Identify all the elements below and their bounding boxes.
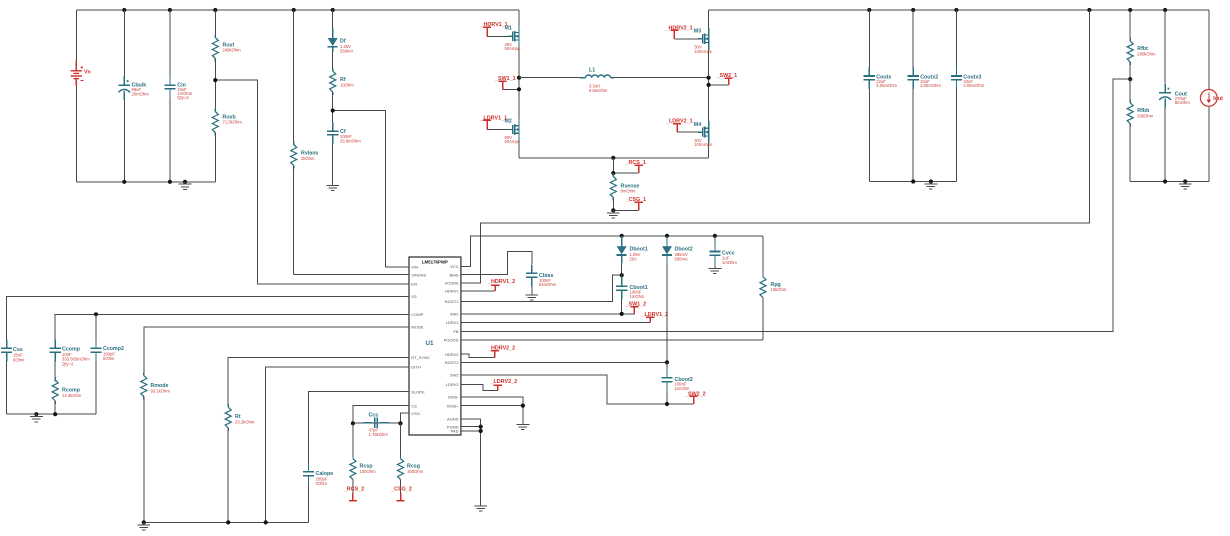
wire comp ground rail [7, 413, 96, 415]
resistor Rcomp [52, 377, 82, 414]
svg-text:VINSNS: VINSNS [411, 272, 426, 277]
svg-text:M3: M3 [694, 28, 701, 34]
svg-text:BIAS: BIAS [449, 272, 458, 277]
svg-text:10Ohm: 10Ohm [340, 82, 354, 87]
svg-text:Iout: Iout [1213, 96, 1223, 102]
wire input bottom rail [76, 181, 215, 183]
resistor Rfbt [1127, 10, 1156, 79]
svg-text:COMP: COMP [411, 312, 423, 317]
wire VINSNS [294, 274, 409, 276]
node Cin bottom [168, 180, 172, 184]
svg-text:280kOhm: 280kOhm [1137, 51, 1156, 56]
svg-text:Ccs: Ccs [369, 413, 379, 419]
wire SW1 [461, 313, 635, 315]
svg-text:SS: SS [411, 294, 417, 299]
node sense rail tap [611, 156, 615, 160]
svg-text:SLOPE: SLOPE [411, 389, 425, 394]
svg-text:_LDRV1_1: _LDRV1_1 [480, 115, 508, 121]
ground bottom rail [137, 520, 150, 530]
wire EN from uvlo divider [215, 80, 409, 284]
svg-text:1mOhm: 1mOhm [630, 294, 645, 299]
net port _SW1_1 [494, 76, 519, 89]
resistor Rpg [760, 236, 787, 340]
wire BOOT1 [461, 275, 622, 301]
svg-text:VCC: VCC [450, 264, 459, 269]
node Cboot2 bottom [665, 402, 669, 406]
net port _HDRV2_2 [461, 346, 515, 358]
wire LDRV1 [461, 321, 650, 323]
ground Cbias [525, 292, 538, 300]
capacitor Ccs [353, 413, 401, 437]
svg-text:_SW1_2: _SW1_2 [625, 302, 647, 308]
svg-text:_LDRV2_2: _LDRV2_2 [490, 379, 518, 385]
capacitor Cboot2 [661, 362, 692, 404]
net port _SW2_2 [684, 391, 706, 404]
node RCS tap [611, 171, 615, 175]
node Cvcc top [713, 234, 717, 238]
svg-text:Vn: Vn [84, 69, 91, 75]
diode Dboot2 [662, 236, 693, 363]
net port _HDRV1_1 [480, 22, 509, 36]
svg-text:1.76kOhm: 1.76kOhm [369, 432, 389, 437]
node top rail Coutx [867, 8, 871, 12]
net port _LDRV1_2 [641, 312, 669, 322]
node top rail Ruvt [213, 8, 217, 12]
net port _SW1_2 [625, 302, 647, 314]
node Dboot2 top [665, 234, 669, 238]
svg-text:23.2kOhm: 23.2kOhm [235, 420, 255, 425]
svg-text:0Ohm: 0Ohm [13, 358, 25, 363]
diode Dboot1 [617, 236, 648, 275]
svg-text:0Ohm: 0Ohm [316, 481, 328, 486]
svg-text:_CSG_2: _CSG_2 [390, 487, 412, 493]
resistor Rcsp [350, 423, 376, 492]
svg-text:20kOhm: 20kOhm [1137, 113, 1153, 118]
svg-text:71.5kOhm: 71.5kOhm [223, 120, 243, 125]
svg-text:BOOT1: BOOT1 [445, 299, 459, 304]
wire SW2 [461, 375, 694, 404]
ground Cf [326, 183, 339, 191]
resistor Ruvb [212, 80, 242, 182]
capacitor Coutx2 [908, 10, 942, 182]
svg-text:8.6mOhm: 8.6mOhm [589, 88, 608, 93]
ground comp network [30, 412, 43, 422]
node top rail Coutx3 [954, 8, 958, 12]
ground AGND [474, 503, 487, 511]
node SW2 inductor tap [707, 76, 711, 80]
svg-text:1mOhm: 1mOhm [722, 260, 737, 265]
svg-text:8mOhm: 8mOhm [621, 189, 636, 194]
ground Cvcc [709, 266, 722, 274]
resistor Rvlans [291, 10, 319, 275]
capacitor Css [1, 339, 25, 414]
node uvlo divider junction [213, 78, 217, 82]
op-amp U1 LM5176PWP [405, 257, 465, 435]
node ISNS junction [521, 404, 525, 408]
node Rcomp bottom [53, 412, 57, 416]
transistor M2 [505, 119, 520, 145]
net port _HDRV1_2 [461, 279, 515, 291]
svg-text:MODE: MODE [411, 325, 423, 330]
ground ISNS [517, 422, 530, 430]
svg-text:VIN: VIN [411, 265, 418, 270]
wire BOOT2 [461, 361, 667, 363]
svg-text:14.3kOhm: 14.3kOhm [62, 393, 82, 398]
net port _RCS_1 [613, 158, 646, 173]
svg-text:DITH: DITH [411, 365, 420, 370]
node DITH bottom [264, 520, 268, 524]
capacitor Coutx3 [951, 10, 985, 182]
node top rail Rvlans [292, 8, 296, 12]
svg-text:LM5176PWP: LM5176PWP [422, 260, 448, 265]
resistor Rcsg [398, 423, 424, 492]
node Cboot1 bottom [620, 312, 624, 316]
wire ISNS- [461, 397, 523, 406]
svg-text:_LDRV1_2: _LDRV1_2 [641, 312, 669, 318]
wire output cap rail [869, 181, 956, 183]
node SW1 stub tap [517, 87, 521, 91]
wire analog bottom rail [144, 521, 309, 523]
svg-text:Qty=3: Qty=3 [177, 95, 189, 100]
node top rail Cbulk [122, 8, 126, 12]
svg-text:100Ohm: 100Ohm [360, 469, 377, 474]
wire DITH [266, 367, 409, 522]
wire switch leg 1 [519, 10, 613, 158]
capacitor Cvcc [709, 236, 737, 266]
wire switch leg 2 [613, 10, 708, 158]
svg-text:50Amps: 50Amps [505, 139, 520, 144]
svg-text:100Amps: 100Amps [694, 49, 712, 54]
svg-text:250mA: 250mA [340, 48, 353, 53]
node CS tap [351, 421, 355, 425]
svg-text:VOSNS: VOSNS [445, 281, 459, 286]
svg-text:_SW2_2: _SW2_2 [684, 391, 706, 397]
node Dboot1 top [620, 234, 624, 238]
capacitor Cbias [526, 264, 557, 294]
capacitor Cout [1159, 10, 1190, 182]
svg-text:PGOOD: PGOOD [444, 338, 459, 343]
svg-text:ISNS-: ISNS- [448, 395, 459, 400]
svg-text:_SW1_1: _SW1_1 [494, 76, 516, 82]
svg-text:_RCS_1: _RCS_1 [625, 160, 646, 166]
node top rail Rfbt [1128, 8, 1132, 12]
node top rail Df [331, 8, 335, 12]
node CSG tap [398, 421, 402, 425]
ground output caps [925, 179, 938, 189]
transistor M3 [694, 28, 712, 54]
svg-text:25.6mOhm: 25.6mOhm [340, 139, 361, 144]
svg-text:FB: FB [453, 329, 458, 334]
current source Iout [1200, 10, 1223, 182]
svg-text:2.05mOhm: 2.05mOhm [876, 83, 897, 88]
node BOOT1 junction [620, 273, 624, 277]
wire top input rail [76, 9, 519, 11]
resistor Rmode [141, 373, 171, 523]
svg-text:_HDRV1_2: _HDRV1_2 [487, 279, 515, 285]
transistor M1 [505, 25, 520, 51]
net port _CSG_1 [613, 197, 646, 210]
capacitor Calope [303, 463, 333, 523]
wire SS [7, 296, 409, 340]
svg-text:_HDRV2_1: _HDRV2_1 [665, 25, 693, 31]
svg-text:100Ohm: 100Ohm [407, 469, 424, 474]
node Ccomp2 tap [94, 312, 98, 316]
net port _HDRV2_1 [665, 25, 699, 38]
svg-text:L1: L1 [589, 67, 595, 73]
wire SLOPE [309, 392, 410, 463]
node Cout bottom [1163, 179, 1167, 183]
svg-text:Qty=2: Qty=2 [62, 361, 74, 366]
net port _SW2_1 [709, 73, 738, 85]
ground Rsense [607, 210, 620, 218]
wire PGND [461, 426, 481, 428]
capacitor Ccomp [50, 339, 91, 381]
wire CSG [401, 413, 410, 423]
svg-text:64mOhm: 64mOhm [539, 282, 557, 287]
node Rt bottom [226, 520, 230, 524]
wire VCC rail [461, 236, 763, 267]
svg-text:PAD: PAD [451, 429, 459, 434]
wire ISNS+ [461, 406, 523, 423]
node PGND tap [479, 425, 483, 429]
svg-text:HDRV1: HDRV1 [445, 289, 459, 294]
svg-text:1mOhm: 1mOhm [675, 386, 690, 391]
resistor Ruvt [212, 10, 241, 80]
svg-text:SW2: SW2 [450, 373, 459, 378]
svg-text:AGND: AGND [447, 417, 459, 422]
svg-text:20A: 20A [630, 256, 638, 261]
node feedback tap [1128, 77, 1132, 81]
diode Df [328, 10, 354, 55]
net port _RCS_2 [343, 487, 364, 501]
node Cbulk bottom [122, 180, 126, 184]
svg-text:100Amps: 100Amps [694, 142, 712, 147]
capacitor Coutx [864, 10, 898, 182]
node filter junction [331, 108, 335, 112]
svg-text:8mOhm: 8mOhm [1175, 100, 1190, 105]
node PAD tap [479, 429, 483, 433]
voltage source Vn [71, 10, 91, 182]
wire FB sense [461, 79, 1130, 331]
node CSG tap [611, 208, 615, 212]
ground input rail [179, 180, 192, 190]
capacitor Ccomp2 [90, 314, 124, 414]
svg-text:EN: EN [411, 282, 417, 287]
wire VOSNS sense [461, 10, 1090, 283]
svg-text:CS: CS [411, 403, 417, 408]
svg-text:LDRV2: LDRV2 [446, 382, 460, 387]
wire PAD [461, 430, 481, 432]
svg-text:_LDRV2_1: _LDRV2_1 [665, 119, 693, 125]
svg-text:_RCS_2: _RCS_2 [343, 487, 364, 493]
svg-text:HDRV2: HDRV2 [445, 352, 459, 357]
net port _LDRV1_1 [480, 115, 509, 129]
resistor Rfbb [1127, 79, 1153, 181]
svg-text:2kOhm: 2kOhm [301, 156, 315, 161]
wire output rail 2 [1130, 181, 1209, 183]
node SW2 stub tap [707, 83, 711, 87]
svg-text:SW1: SW1 [450, 312, 459, 317]
svg-text:2.05mOhm: 2.05mOhm [963, 83, 984, 88]
svg-text:_CSG_1: _CSG_1 [625, 197, 647, 203]
svg-text:_HDRV1_1: _HDRV1_1 [480, 22, 508, 28]
wire top output rail [709, 9, 1209, 11]
node top rail VOSNS [1087, 8, 1091, 12]
node SW1 inductor tap [517, 76, 521, 80]
svg-text:93.1kOhm: 93.1kOhm [151, 388, 171, 393]
transistor M4 [694, 121, 712, 147]
wire CS [353, 406, 409, 424]
net port _LDRV2_2 [461, 379, 517, 391]
svg-text:50Amps: 50Amps [505, 46, 520, 51]
wire MODE [144, 327, 409, 375]
svg-text:RT_SYNC: RT_SYNC [411, 355, 430, 360]
node top rail Cin [168, 8, 172, 12]
net port _CSG_2 [390, 487, 412, 501]
svg-text:249kOhm: 249kOhm [223, 48, 242, 53]
capacitor Cf [327, 111, 361, 184]
wire AGND [461, 419, 481, 504]
capacitor Cin [164, 10, 192, 182]
svg-text:ISNS+: ISNS+ [447, 403, 459, 408]
node Coutx2 bottom [911, 179, 915, 183]
wire VIN from filter [333, 111, 409, 268]
net port _LDRV2_1 [665, 119, 698, 132]
wire BIAS [461, 251, 532, 274]
inductor L1 [519, 67, 709, 92]
capacitor Cboot1 [616, 275, 648, 314]
ground output [1179, 179, 1192, 189]
capacitor Cbulk [118, 10, 149, 182]
svg-text:_HDRV2_2: _HDRV2_2 [487, 346, 515, 352]
node top rail Cout [1163, 8, 1167, 12]
svg-text:M4: M4 [694, 122, 701, 128]
svg-text:10kOhm: 10kOhm [771, 287, 787, 292]
svg-text:BOOT2: BOOT2 [445, 360, 459, 365]
wire COMP [55, 314, 409, 340]
svg-text:0Ohm: 0Ohm [103, 356, 115, 361]
svg-text:500mA: 500mA [675, 256, 688, 261]
resistor Rf [330, 55, 355, 111]
svg-text:20mOhm: 20mOhm [132, 91, 150, 96]
svg-text:_SW2_1: _SW2_1 [716, 73, 738, 79]
svg-text:CSG: CSG [411, 411, 420, 416]
node top rail Coutx2 [911, 8, 915, 12]
svg-text:LDRV1: LDRV1 [446, 320, 460, 325]
svg-text:U1: U1 [426, 340, 435, 347]
resistor Rsense [610, 173, 639, 210]
wire PGOOD [461, 339, 763, 341]
node BOOT2 junction [665, 360, 669, 364]
wire RT_SYNC [228, 357, 409, 407]
svg-text:2.05mOhm: 2.05mOhm [920, 83, 941, 88]
resistor Rt [225, 404, 255, 522]
